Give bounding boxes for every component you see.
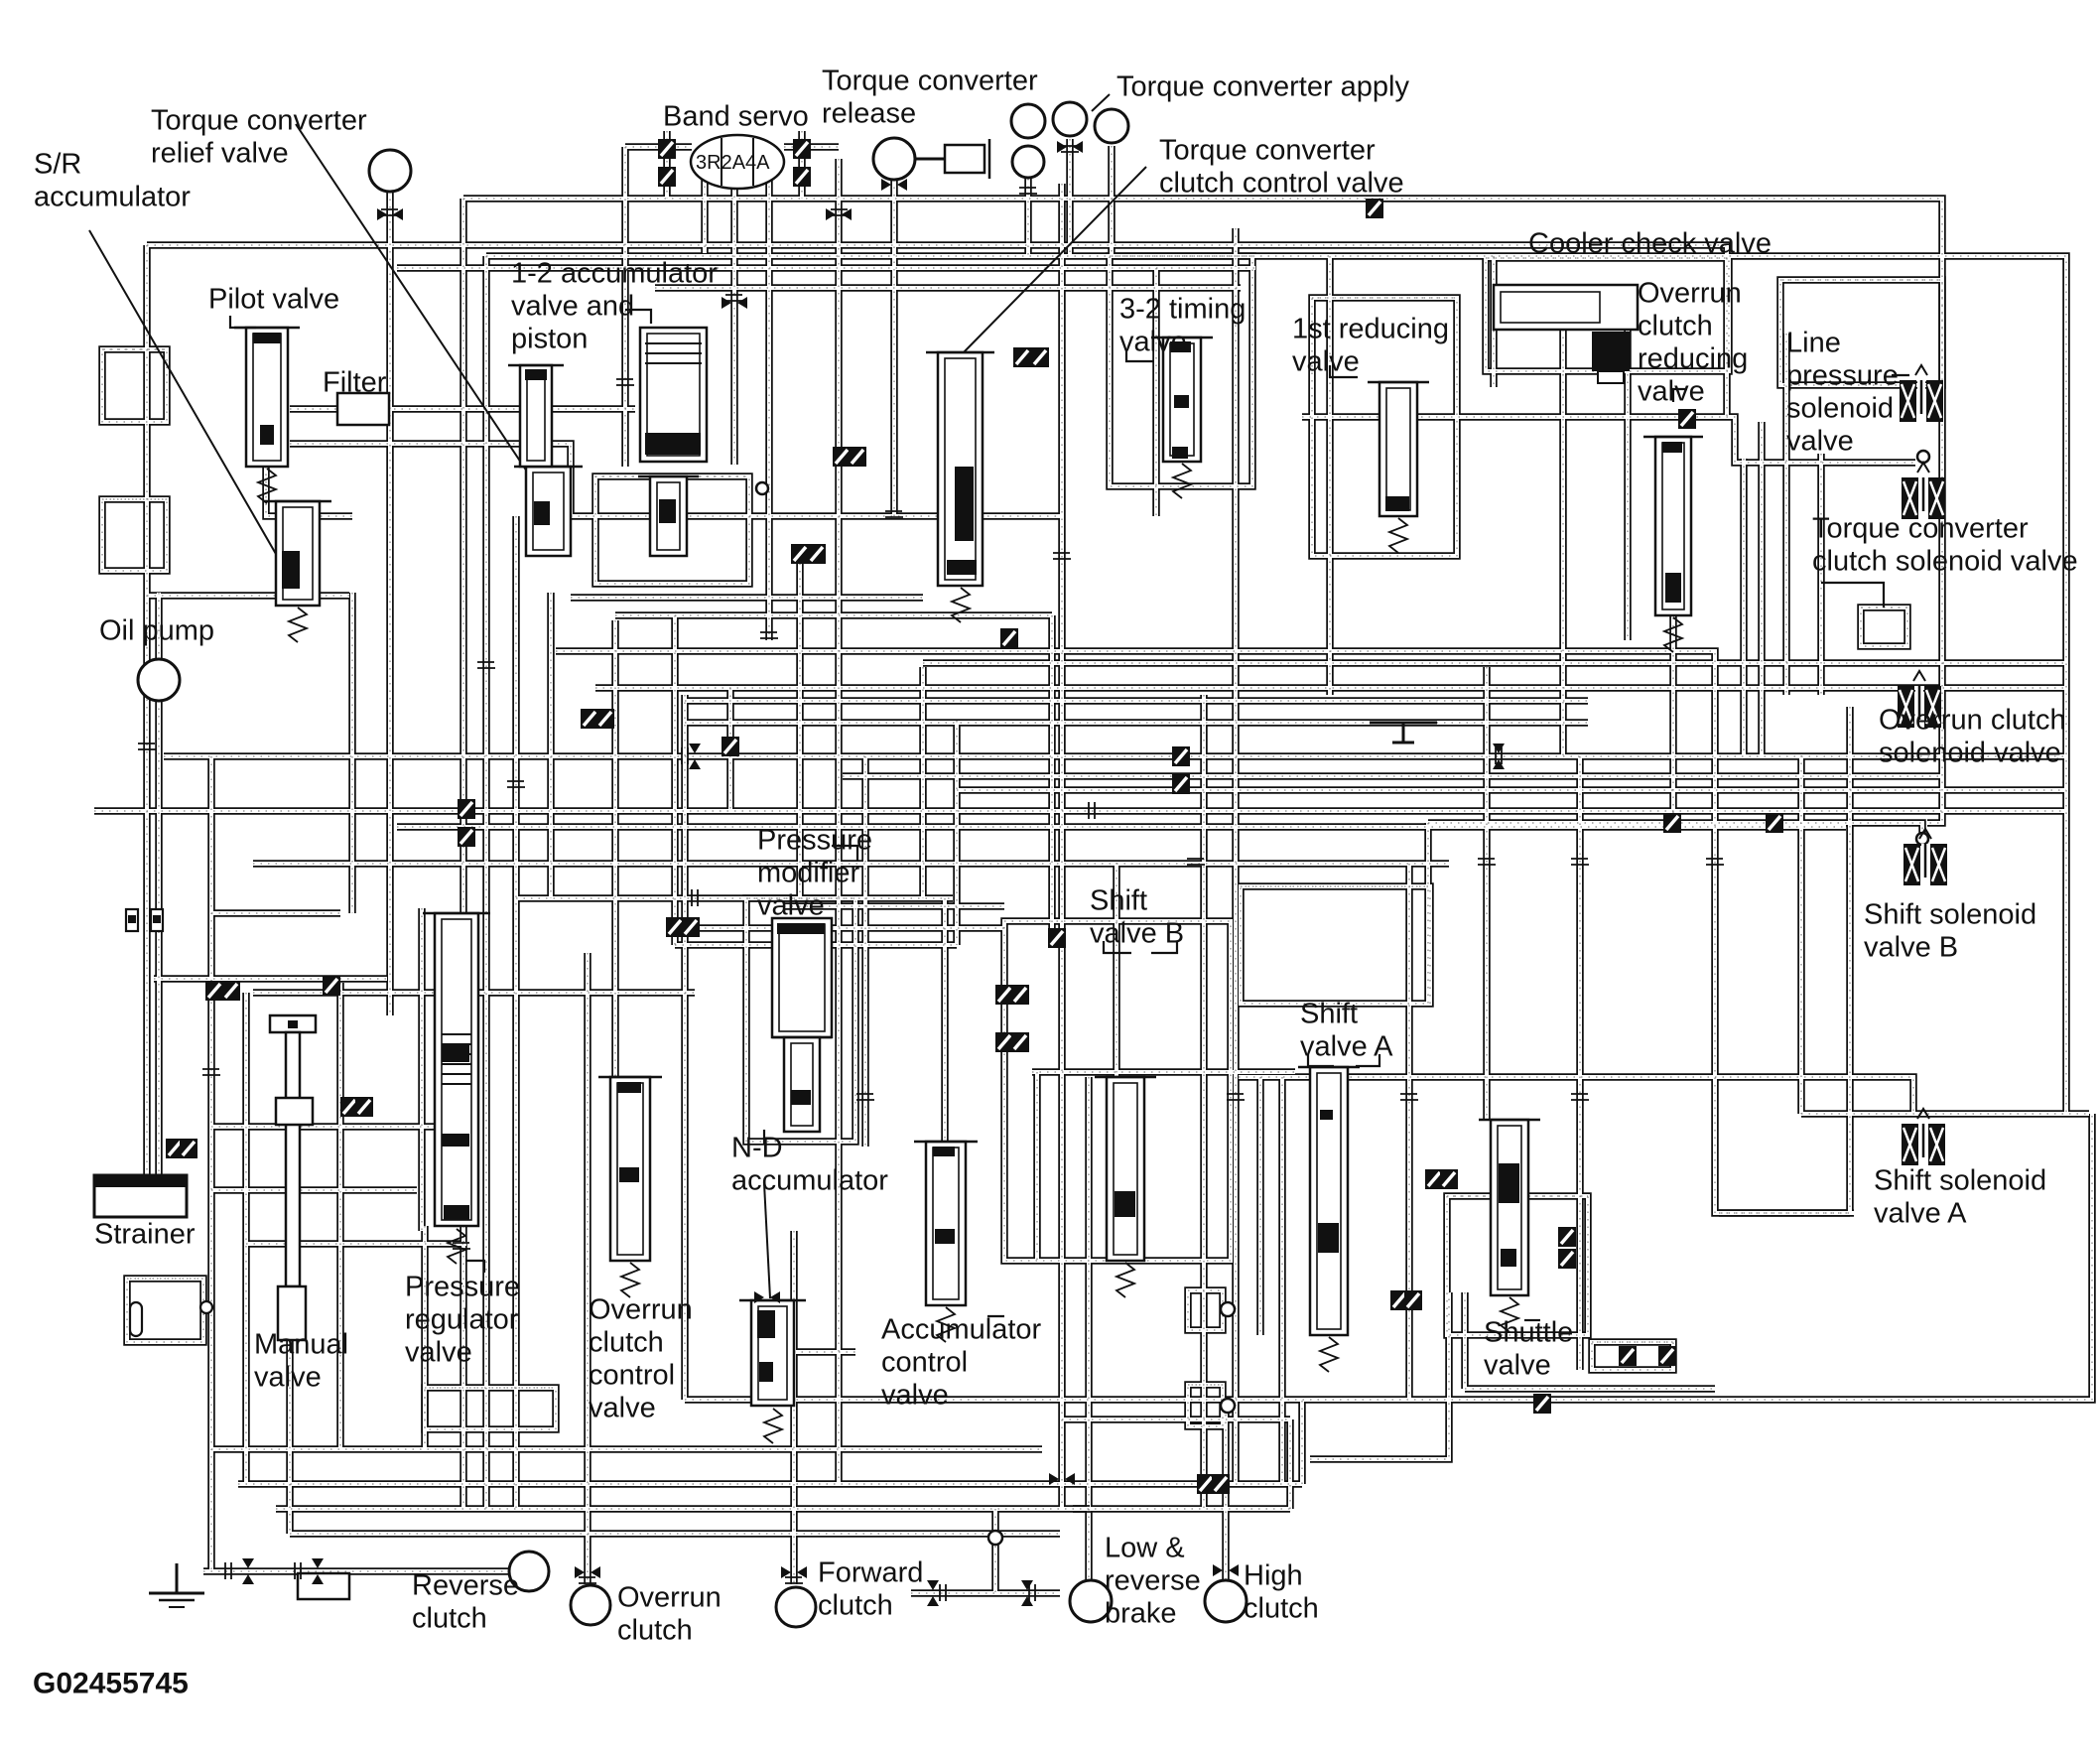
svg-text:Shift solenoid: Shift solenoid [1864,899,2036,931]
svg-text:clutch solenoid valve: clutch solenoid valve [1812,546,2078,578]
svg-text:modifier: modifier [757,858,859,889]
svg-text:valve: valve [757,890,825,922]
svg-text:brake: brake [1105,1598,1177,1630]
svg-text:Torque converter: Torque converter [1812,513,2029,545]
svg-text:release: release [822,98,916,130]
svg-text:valve B: valve B [1864,932,1958,964]
svg-text:Overrun clutch: Overrun clutch [1879,705,2066,737]
svg-text:Shift solenoid: Shift solenoid [1874,1165,2046,1197]
svg-text:solenoid valve: solenoid valve [1879,738,2061,769]
svg-text:piston: piston [511,324,588,355]
svg-text:valve: valve [1786,426,1854,458]
svg-text:N-D: N-D [731,1133,783,1164]
svg-text:Band servo: Band servo [663,101,809,133]
svg-text:valve: valve [405,1337,472,1369]
svg-text:Line: Line [1786,328,1841,359]
svg-text:Filter: Filter [323,367,387,399]
svg-text:Cooler check valve: Cooler check valve [1528,228,1772,260]
svg-text:valve A: valve A [1300,1031,1393,1063]
svg-text:clutch: clutch [589,1327,664,1359]
svg-text:Strainer: Strainer [94,1219,196,1251]
svg-text:Pressure: Pressure [405,1272,520,1303]
svg-text:Torque converter: Torque converter [822,66,1038,97]
svg-text:Overrun: Overrun [589,1294,693,1326]
svg-text:clutch: clutch [1638,311,1713,342]
svg-text:valve: valve [1638,376,1705,408]
svg-text:regulator: regulator [405,1304,519,1336]
svg-text:reducing: reducing [1638,343,1748,375]
svg-text:1st reducing: 1st reducing [1292,314,1449,345]
svg-text:Pilot valve: Pilot valve [208,284,339,316]
svg-text:Forward: Forward [818,1557,923,1589]
svg-text:valve B: valve B [1090,918,1184,950]
svg-text:Overrun: Overrun [617,1582,722,1614]
svg-text:G02455745: G02455745 [33,1667,189,1699]
svg-text:valve and: valve and [511,291,634,323]
svg-text:Accumulator: Accumulator [881,1314,1042,1346]
svg-text:control: control [589,1360,675,1392]
svg-text:pressure: pressure [1786,360,1899,392]
svg-text:Torque converter apply: Torque converter apply [1116,71,1409,103]
svg-text:S/R: S/R [34,149,81,181]
svg-text:valve: valve [1484,1350,1551,1382]
svg-text:valve: valve [881,1380,949,1412]
svg-text:Shift: Shift [1090,885,1147,917]
svg-text:Manual: Manual [254,1329,348,1361]
svg-text:control: control [881,1347,968,1379]
svg-text:clutch control valve: clutch control valve [1159,168,1404,200]
svg-text:Pressure: Pressure [757,825,872,857]
svg-text:Torque converter: Torque converter [1159,135,1376,167]
svg-text:clutch: clutch [617,1615,693,1647]
svg-text:solenoid: solenoid [1786,393,1894,425]
svg-text:3-2 timing: 3-2 timing [1119,294,1246,326]
svg-text:3R2A4A: 3R2A4A [696,152,770,174]
svg-text:clutch: clutch [818,1590,893,1622]
svg-text:clutch: clutch [412,1603,487,1635]
svg-text:Low &: Low & [1105,1533,1185,1564]
svg-text:relief valve: relief valve [151,138,289,170]
svg-text:Oil pump: Oil pump [99,615,214,647]
svg-text:reverse: reverse [1105,1565,1201,1597]
svg-text:Overrun: Overrun [1638,278,1742,310]
svg-text:Torque converter: Torque converter [151,105,367,137]
svg-text:Shuttle: Shuttle [1484,1317,1573,1349]
svg-text:clutch: clutch [1244,1593,1319,1625]
svg-text:Reverse: Reverse [412,1570,519,1602]
svg-text:accumulator: accumulator [731,1165,888,1197]
svg-text:accumulator: accumulator [34,182,191,213]
svg-text:valve: valve [589,1393,656,1424]
svg-text:Shift: Shift [1300,999,1358,1030]
svg-text:valve: valve [1119,327,1187,358]
svg-text:valve: valve [1292,346,1360,378]
svg-text:1-2 accumulator: 1-2 accumulator [511,258,718,290]
svg-text:valve A: valve A [1874,1198,1967,1230]
svg-text:High: High [1244,1560,1303,1592]
svg-text:valve: valve [254,1362,322,1394]
